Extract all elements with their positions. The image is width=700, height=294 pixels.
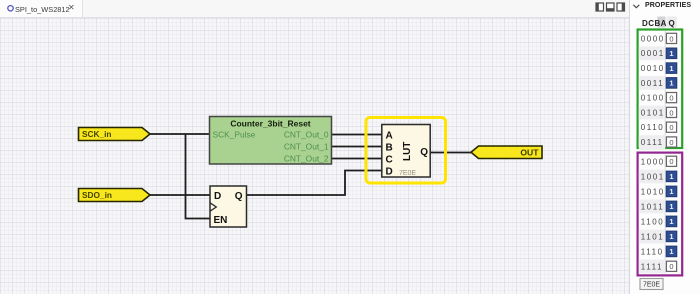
svg-text:0010: 0010 bbox=[641, 64, 665, 73]
svg-text:1000: 1000 bbox=[641, 157, 665, 166]
truth table row 1011 bbox=[639, 200, 677, 214]
panel collapse chevron bbox=[633, 5, 639, 8]
truth table row 0101 bbox=[639, 106, 677, 120]
svg-text:SCK_Pulse: SCK_Pulse bbox=[213, 130, 256, 140]
truth table header DCBA Q bbox=[642, 17, 677, 29]
truth table row 0111 bbox=[639, 135, 677, 149]
svg-text:SCK_in: SCK_in bbox=[82, 129, 112, 139]
svg-text:CNT_Out_2: CNT_Out_2 bbox=[284, 154, 329, 164]
svg-text:LUT: LUT bbox=[402, 142, 413, 161]
svg-text:C: C bbox=[386, 155, 393, 166]
svg-text:0: 0 bbox=[669, 123, 673, 132]
layout icon bottom bbox=[607, 3, 615, 11]
svg-text:0111: 0111 bbox=[641, 138, 664, 147]
selection highlight around LUT bbox=[366, 118, 446, 184]
svg-text:0: 0 bbox=[669, 138, 673, 147]
truth table row 0000 bbox=[641, 33, 677, 43]
svg-text:OUT: OUT bbox=[520, 148, 539, 158]
wire SDO_in to D bbox=[150, 194, 210, 196]
svg-text:0011: 0011 bbox=[641, 79, 664, 88]
svg-text:1: 1 bbox=[669, 64, 673, 73]
svg-text:7E0E: 7E0E bbox=[399, 170, 416, 177]
svg-text:1: 1 bbox=[669, 49, 673, 58]
svg-text:1: 1 bbox=[669, 217, 673, 226]
wire CNT_Out_2 to C bbox=[332, 158, 382, 160]
svg-text:Counter_3bit_Reset: Counter_3bit_Reset bbox=[230, 119, 310, 129]
svg-text:1111: 1111 bbox=[641, 262, 663, 271]
svg-text:0: 0 bbox=[669, 34, 673, 43]
svg-text:CNT_Out_0: CNT_Out_0 bbox=[284, 130, 329, 140]
truth table row 1010 bbox=[641, 186, 677, 197]
input flag SDO_in bbox=[79, 189, 151, 202]
svg-text:1: 1 bbox=[669, 202, 673, 211]
wire branch to EN bbox=[186, 134, 211, 219]
truth table row 0100 bbox=[641, 93, 677, 103]
truth table row 1101 bbox=[639, 230, 677, 244]
svg-text:1: 1 bbox=[669, 247, 673, 256]
svg-text:D: D bbox=[386, 167, 393, 178]
truth table group rows 1000-1111 bbox=[638, 153, 683, 276]
LUT U1 7E0E bbox=[382, 125, 430, 178]
wire SCK_in to SCK_Pulse bbox=[150, 133, 210, 135]
svg-text:Q: Q bbox=[669, 19, 675, 28]
truth table row 0001 bbox=[639, 46, 677, 60]
svg-text:SDO_in: SDO_in bbox=[82, 190, 112, 200]
svg-text:1011: 1011 bbox=[641, 202, 664, 211]
svg-text:0001: 0001 bbox=[641, 49, 665, 58]
truth table row 1000 bbox=[641, 156, 677, 166]
svg-text:0: 0 bbox=[669, 157, 673, 166]
flip-flop D/EN bbox=[210, 186, 247, 227]
wire CNT_Out_0 to A bbox=[332, 134, 382, 136]
svg-text:0000: 0000 bbox=[641, 34, 665, 43]
svg-text:1001: 1001 bbox=[641, 172, 665, 181]
input flag SCK_in bbox=[79, 128, 151, 141]
output flag OUT bbox=[471, 146, 542, 159]
svg-text:1010: 1010 bbox=[641, 187, 665, 196]
svg-text:0: 0 bbox=[669, 262, 673, 271]
layout icon right bbox=[617, 3, 625, 11]
truth table row 1110 bbox=[641, 246, 677, 257]
svg-text:D: D bbox=[214, 191, 221, 202]
top bar bbox=[0, 0, 629, 18]
svg-text:1: 1 bbox=[669, 187, 673, 196]
svg-text:A: A bbox=[386, 131, 393, 142]
svg-text:1: 1 bbox=[669, 172, 673, 181]
svg-text:0100: 0100 bbox=[641, 94, 665, 103]
truth table row 1001 bbox=[639, 170, 677, 184]
layout icon left bbox=[596, 3, 604, 11]
svg-text:1110: 1110 bbox=[641, 247, 664, 256]
properties panel bbox=[629, 0, 700, 294]
svg-text:1: 1 bbox=[669, 79, 673, 88]
truth table column separator bbox=[664, 31, 666, 274]
wire LUT Q to OUT bbox=[430, 152, 471, 154]
LUT hex value chip 7E0E bbox=[640, 279, 663, 290]
tab schematic icon bbox=[8, 6, 13, 11]
svg-text:EN: EN bbox=[214, 215, 228, 226]
truth table group rows 0000-0111 bbox=[638, 30, 683, 149]
wire CNT_Out_1 to B bbox=[332, 146, 382, 148]
svg-text:7E0E: 7E0E bbox=[643, 282, 660, 289]
wire flipflop Q to LUT D bbox=[247, 171, 382, 196]
truth table row 0110 bbox=[641, 122, 677, 132]
truth table row 1111 bbox=[639, 260, 677, 274]
svg-text:DCBA: DCBA bbox=[642, 19, 667, 28]
truth table row 1100 bbox=[641, 216, 677, 227]
svg-text:B: B bbox=[386, 143, 393, 154]
svg-text:CNT_Out_1: CNT_Out_1 bbox=[284, 142, 329, 152]
svg-text:Q: Q bbox=[235, 191, 243, 202]
svg-text:1101: 1101 bbox=[641, 232, 664, 241]
truth table row 0011 bbox=[639, 76, 677, 90]
component Counter_3bit_Reset bbox=[210, 117, 332, 165]
svg-text:1: 1 bbox=[669, 232, 673, 241]
svg-text:0: 0 bbox=[669, 108, 673, 117]
truth table row 0010 bbox=[641, 63, 677, 74]
svg-text:0: 0 bbox=[669, 94, 673, 103]
svg-text:0101: 0101 bbox=[641, 108, 665, 117]
svg-text:Q: Q bbox=[420, 147, 428, 158]
svg-text:1100: 1100 bbox=[641, 217, 664, 226]
svg-text:0110: 0110 bbox=[641, 123, 664, 132]
